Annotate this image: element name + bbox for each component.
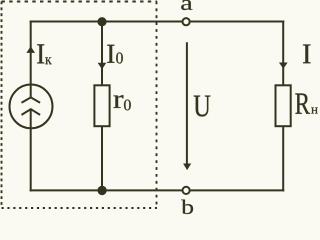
current source Iк [10,85,53,129]
resistor r0 [94,85,109,126]
current arrow I0 [98,63,105,69]
terminal a [183,18,190,25]
voltage arrow U [184,42,191,169]
node junction top [97,17,106,26]
resistor Rн [276,85,291,126]
wire bottom [30,189,285,191]
current arrow Iк [27,47,34,53]
wire top [30,21,285,23]
label Rн [295,94,310,114]
label r0 [114,95,124,108]
current arrow I [280,63,287,68]
wire left vertical [30,21,32,192]
terminal b [183,187,190,194]
label a [181,0,192,10]
node junction bottom [97,186,106,195]
label Iк [37,44,44,63]
label b [181,200,193,214]
label U [194,96,211,117]
wire middle vertical [101,22,103,192]
label I0 [107,45,114,63]
wire right vertical [282,21,284,192]
dashed boundary of equivalent current source [2,2,158,209]
label I [303,45,310,64]
